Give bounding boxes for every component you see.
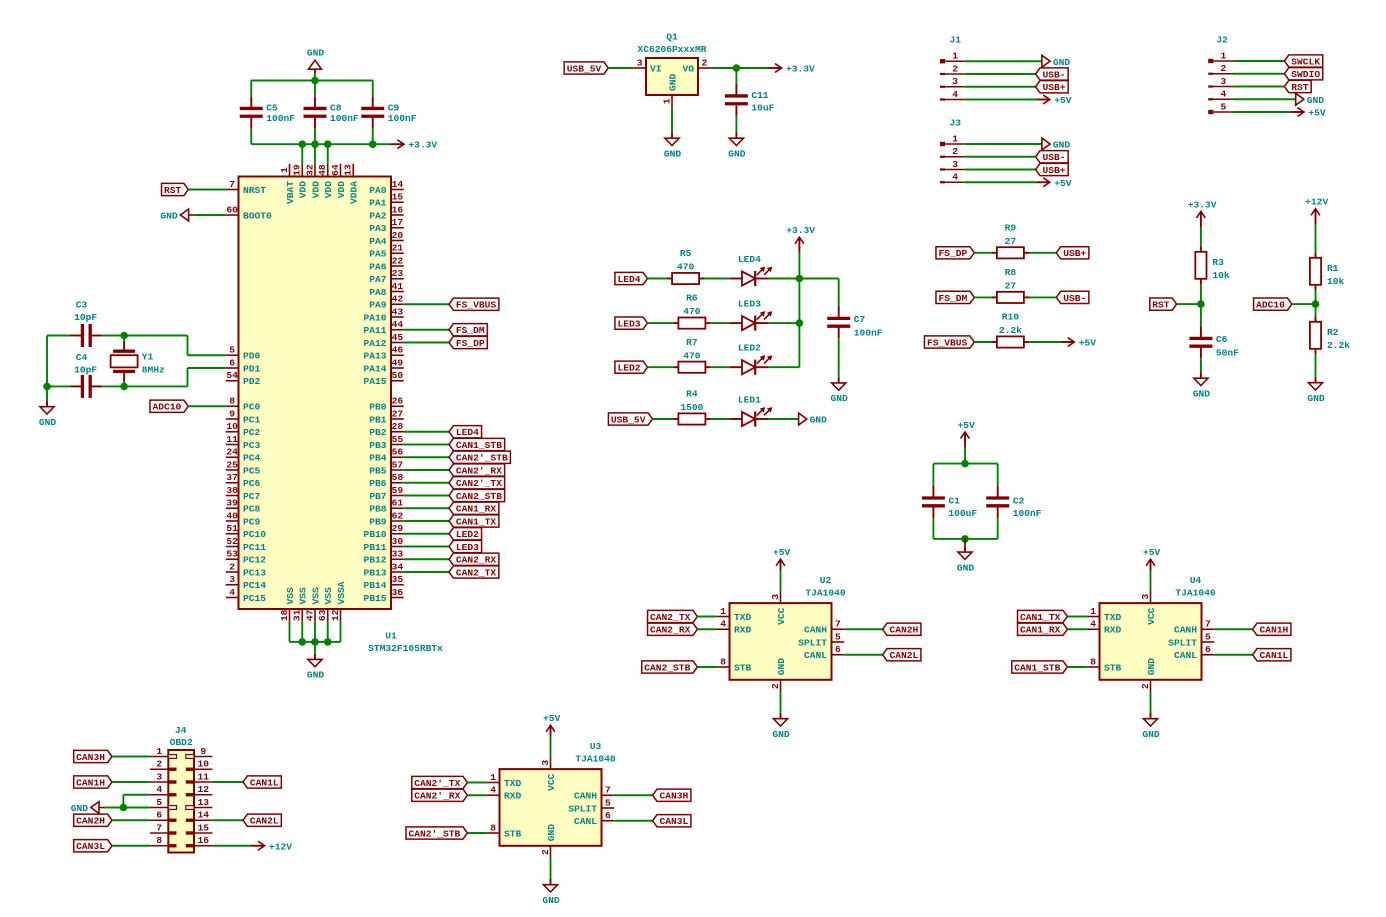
svg-text:PC9: PC9 [243,516,261,527]
net label LED3 [615,317,648,330]
ground C6 [1193,373,1211,400]
svg-text:10: 10 [226,421,238,432]
net label CAN1_STB [1012,661,1068,674]
U4 pin 3 VCC [1140,590,1151,603]
wire [1233,98,1296,100]
wire [404,469,449,471]
svg-text:37: 37 [226,472,238,483]
wire [1177,303,1201,305]
svg-text:STB: STB [1104,662,1122,673]
svg-text:CANL: CANL [1174,650,1197,661]
junction Y1 top [120,332,128,340]
wire C9 bottom [372,128,374,144]
wire top rail of cap bank [251,80,373,82]
net label CAN2'_RX [412,789,468,802]
resistor R5 [667,248,704,284]
svg-text:CAN1H: CAN1H [1260,625,1289,636]
wire U3 GND down [550,859,552,879]
U1 pin 62 PB9 [369,510,404,527]
U1 pin 13 VDDA [343,164,360,204]
power +12V at R1 [1305,197,1328,225]
U1 pin 8 PC0 [226,396,261,413]
U1 pin 38 PC7 [226,485,261,502]
svg-text:GND: GND [1142,729,1160,740]
svg-text:26: 26 [392,396,404,407]
svg-text:RXD: RXD [1104,625,1122,636]
svg-text:PA7: PA7 [369,274,387,285]
svg-text:35: 35 [392,574,404,585]
svg-text:R3: R3 [1212,257,1224,268]
ground C1/C2 [957,546,975,573]
J3 pin 1 [940,133,965,146]
svg-text:LED2: LED2 [738,343,761,354]
net label USB+ at J3 [1036,163,1069,176]
net label CAN2_TX [449,566,499,579]
net label CAN2_RX [648,623,698,636]
J2 pin 2 [1208,63,1233,75]
wire [467,832,486,834]
svg-text:27: 27 [1005,236,1017,247]
net label CAN1_RX [1018,623,1068,636]
svg-text:FS_VBUS: FS_VBUS [456,300,497,311]
svg-text:28: 28 [392,421,404,432]
svg-text:10uF: 10uF [751,103,774,114]
U1 pin 51 PC10 [226,523,267,540]
wire U2 CANH [844,628,882,630]
wire [404,456,449,458]
J4 pin 7 [150,822,177,834]
U1 pin 12 VSSA [330,581,347,622]
svg-text:30: 30 [392,536,404,547]
U1 pin 15 PA1 [369,192,404,209]
ground Q1 [664,133,682,160]
junction rail / VDD pin 19 [298,140,306,148]
svg-text:27: 27 [392,408,404,419]
svg-text:GND: GND [772,729,790,740]
wire [188,189,225,191]
junction LED4 / +3.3V rail [796,275,804,283]
svg-text:20: 20 [392,230,404,241]
wire [1233,111,1290,113]
svg-text:100nF: 100nF [266,113,295,124]
power +3.3V at cap rail [390,140,437,151]
wire [404,571,449,573]
svg-text:GND: GND [831,393,849,404]
svg-text:470: 470 [683,350,701,361]
svg-text:7: 7 [1205,619,1211,630]
wire +5V to U3 VCC [550,736,552,756]
svg-text:PD0: PD0 [243,351,261,362]
capacitor C3 [70,324,102,347]
svg-text:11: 11 [197,771,209,782]
svg-text:10: 10 [197,759,209,770]
svg-text:1: 1 [279,167,290,173]
wire [404,495,449,497]
capacitor C6 [1189,326,1239,358]
resistor R9 [992,222,1029,258]
svg-text:24: 24 [226,447,238,458]
svg-text:SPLIT: SPLIT [1168,637,1197,648]
net label CAN2_RX [449,553,499,566]
svg-text:J1: J1 [950,35,962,46]
svg-text:LED2: LED2 [617,363,640,374]
wire [974,341,992,343]
U1 pin 29 PB10 [363,523,403,540]
svg-text:57: 57 [392,459,404,470]
svg-text:10pF: 10pF [74,312,97,323]
U1 pin 24 PC4 [226,447,261,464]
svg-text:6: 6 [1205,644,1211,655]
svg-text:2: 2 [1221,63,1227,74]
wire C2 top [997,464,999,486]
resistor R3 [1195,247,1230,284]
svg-text:33: 33 [392,549,404,560]
wire [697,616,716,618]
svg-text:8: 8 [490,822,496,833]
svg-text:60: 60 [226,204,238,215]
svg-text:PB5: PB5 [369,465,387,476]
wire [768,322,799,324]
svg-text:4: 4 [490,785,496,796]
net label CAN1L [1253,649,1291,662]
svg-text:PB4: PB4 [369,453,387,464]
svg-text:4: 4 [1221,89,1227,100]
svg-text:C6: C6 [1216,334,1228,345]
svg-text:2: 2 [952,63,958,74]
svg-text:CAN2_TX: CAN2_TX [456,567,497,578]
svg-text:VSS: VSS [310,587,321,605]
svg-text:4: 4 [952,172,958,183]
J4 pin 11 [186,771,213,783]
wire VSS down [327,622,329,642]
svg-text:16: 16 [197,835,209,846]
svg-text:CAN1H: CAN1H [76,777,105,788]
net label USB_5V at Q1 [564,62,608,75]
capacitor C4 [70,375,102,398]
svg-text:3: 3 [637,57,643,68]
svg-text:2.2k: 2.2k [1327,340,1350,351]
crystal Y1 [111,341,165,382]
svg-text:15: 15 [392,192,404,203]
U4 pin 4 RXD [1087,619,1122,636]
wire VSS bus [290,641,341,643]
resistor R8 [992,267,1029,303]
svg-text:PA3: PA3 [369,223,387,234]
svg-text:LED3: LED3 [456,542,479,553]
wire Y1 top lead [123,336,125,341]
svg-text:FS_DM: FS_DM [938,293,967,304]
svg-text:SPLIT: SPLIT [568,803,597,814]
junction RST node [1197,300,1205,308]
wire VSS down [301,622,303,642]
svg-text:100nF: 100nF [330,113,359,124]
svg-text:+3.3V: +3.3V [786,225,815,236]
svg-text:6: 6 [229,357,235,368]
svg-text:4: 4 [156,784,162,795]
net label SWCLK [1284,55,1322,68]
U4 pin 1 TXD [1087,606,1122,623]
J3 pin 4 [940,172,965,184]
svg-text:VSS: VSS [285,587,296,605]
svg-text:XC6206PxxxMR: XC6206PxxxMR [637,44,706,55]
svg-text:56: 56 [392,447,404,458]
svg-text:C11: C11 [751,90,769,101]
svg-text:PA8: PA8 [369,287,387,298]
svg-text:46: 46 [392,345,404,356]
svg-text:C3: C3 [76,299,88,310]
svg-text:USB-: USB- [1043,69,1066,80]
svg-text:21: 21 [392,243,404,254]
U1 pin 52 PC11 [226,536,267,553]
U1 pin 58 PB6 [369,472,404,489]
wire C8 top [314,81,316,97]
svg-text:VDD: VDD [323,181,334,199]
svg-text:8: 8 [720,656,726,667]
svg-text:50nF: 50nF [1216,347,1239,358]
svg-text:PA6: PA6 [369,261,387,272]
net label RST at NRST [162,183,189,196]
J4 pin 8 [150,835,177,847]
J4 pin 16 [186,835,213,847]
svg-text:3: 3 [952,159,958,170]
wire [974,296,992,298]
svg-text:VO: VO [682,63,694,74]
U3 pin 4 RXD [487,785,522,802]
LED LED1 [729,395,772,427]
svg-text:100nF: 100nF [1013,508,1042,519]
net label FS_DM [449,324,487,337]
U1 pin 35 PB14 [363,574,403,591]
wire [965,86,1036,88]
net label CAN3H at J4 [74,750,112,763]
wire [704,278,729,280]
svg-text:14: 14 [197,810,209,821]
wire U4 GND down [1150,693,1152,713]
svg-text:PC6: PC6 [243,478,261,489]
net label CAN2'_TX [412,776,468,789]
svg-text:+3.3V: +3.3V [408,140,437,151]
U3 pin 3 VCC [540,756,551,769]
svg-text:2: 2 [1140,683,1151,689]
U1 pin 26 PB0 [369,396,404,413]
U1 pin 33 PB12 [363,549,403,566]
wire to R1 [1315,224,1317,252]
svg-text:2: 2 [702,57,708,68]
J3 pin 2 [940,146,965,158]
J4 pin 9 [186,746,213,758]
wire to C4 [47,385,70,387]
svg-text:STB: STB [734,662,752,673]
Q1 pin 2 VO [698,57,711,68]
svg-text:1: 1 [661,98,672,104]
svg-text:14: 14 [392,179,404,190]
svg-text:61: 61 [392,498,404,509]
svg-text:C7: C7 [854,314,866,325]
wire U2 GND down [780,693,782,713]
svg-text:PC15: PC15 [243,593,266,604]
net label CAN2L [883,649,921,662]
svg-text:CANL: CANL [804,650,827,661]
J4 pin 3 [150,771,177,783]
U3 pin 5 SPLIT [568,797,614,814]
svg-text:USB_5V: USB_5V [611,414,646,425]
svg-text:CAN2'_STB: CAN2'_STB [409,828,461,839]
net label CAN1L at J4 [243,776,281,789]
svg-text:R4: R4 [686,389,698,400]
wire +5V to U2 VCC [780,570,782,590]
power +5V at U3 [543,713,561,736]
junction Y1 bottom [120,383,128,391]
U1 pin 32 VDD [304,164,321,199]
svg-text:C1: C1 [948,495,960,506]
op-amp U3 body (TJA1040) [500,769,602,846]
ground above C8 bank [307,47,325,80]
wire [404,520,449,522]
svg-text:STM32F105RBTx: STM32F105RBTx [368,643,443,654]
U1 pin 17 PA3 [369,217,404,234]
svg-text:5: 5 [229,345,235,356]
U1 pin 23 PA7 [369,268,404,285]
svg-text:50: 50 [392,370,404,381]
svg-text:PA0: PA0 [369,185,387,196]
J2 pin 4 [1208,89,1233,101]
svg-text:U2: U2 [820,575,832,586]
capacitor C5 [240,96,296,128]
svg-text:45: 45 [392,332,404,343]
capacitor C11 [725,84,775,116]
wire [404,342,449,344]
svg-text:CAN2_STB: CAN2_STB [644,662,690,673]
svg-text:43: 43 [392,306,404,317]
svg-text:17: 17 [392,217,404,228]
LED LED2 [729,343,772,375]
junction at GND drop [43,383,51,391]
U1 pin 22 PA6 [369,255,404,272]
svg-text:STB: STB [504,828,522,839]
svg-text:GND: GND [1146,658,1157,676]
wire [404,329,449,331]
wire left vertical of crystal loop [46,336,48,387]
svg-text:+5V: +5V [543,713,561,724]
wire C1/C2 bottom rail [933,538,997,540]
resistor R6 [673,293,710,329]
svg-text:+5V: +5V [1079,338,1097,349]
U1 pin 48 VDD [317,164,334,199]
svg-text:CANH: CANH [574,791,597,802]
wire Y1 bottom lead [123,382,125,387]
svg-text:54: 54 [226,370,238,381]
svg-text:VSSA: VSSA [336,581,347,604]
svg-text:8: 8 [1090,656,1096,667]
J1 pin 1 [940,51,965,64]
net label USB+ at J1 [1036,81,1069,94]
svg-text:TJA1040: TJA1040 [575,753,616,764]
svg-text:PA13: PA13 [363,351,386,362]
svg-text:4: 4 [1090,619,1096,630]
svg-text:3: 3 [770,594,781,600]
svg-text:38: 38 [226,485,238,496]
junction rail / VDD pin 48 [324,140,332,148]
svg-text:PB13: PB13 [363,567,386,578]
wire VSS down [314,622,316,642]
transistor Q1 body (XC6206PxxxMR regulator) [646,58,698,95]
svg-text:+5V: +5V [1054,178,1072,189]
U1 pin 25 PC5 [226,459,261,476]
svg-text:Q1: Q1 [666,31,678,42]
svg-text:PC11: PC11 [243,542,266,553]
wire [711,418,730,420]
svg-text:63: 63 [317,609,328,621]
ground at J3 pin 1 [1042,138,1071,150]
svg-text:1: 1 [1221,50,1227,61]
wire GND to J4 pin 5 [104,807,150,809]
wire C4 to PD1 branch [102,385,187,387]
svg-text:PC0: PC0 [243,402,261,413]
wire [711,322,730,324]
svg-text:PB10: PB10 [363,529,386,540]
svg-text:PB7: PB7 [369,491,387,502]
svg-text:CAN2L: CAN2L [890,650,919,661]
svg-text:1: 1 [156,746,162,757]
U2 pin 2 GND [770,680,781,693]
U1 pin 34 PB13 [363,561,403,578]
svg-text:CAN1_TX: CAN1_TX [456,516,497,527]
svg-text:53: 53 [226,549,238,560]
power +5V at J1 pin 4 [1036,95,1072,106]
U4 pin 6 CANL [1174,644,1214,661]
svg-text:CAN3L: CAN3L [76,841,105,852]
capacitor C1 [922,486,978,519]
svg-text:PC5: PC5 [243,465,261,476]
svg-text:15: 15 [197,822,209,833]
wire [467,782,486,784]
U1 pin 28 PB2 [369,421,404,438]
svg-text:CAN2_RX: CAN2_RX [456,555,497,566]
net label FS_VBUS at R10 [924,336,974,349]
resistor R4 [673,389,710,425]
svg-text:LED3: LED3 [738,299,761,310]
svg-text:LED1: LED1 [738,395,761,406]
U1 pin 10 PC2 [226,421,261,438]
wire [404,546,449,548]
svg-text:GND: GND [1307,393,1325,404]
resistor R7 [673,337,710,373]
U1 pin 19 VDD [292,164,309,199]
svg-text:R5: R5 [680,248,692,259]
svg-text:PB2: PB2 [369,427,387,438]
svg-text:RST: RST [1291,82,1309,93]
net label CAN2'_STB [449,451,510,464]
svg-text:PD2: PD2 [243,376,261,387]
wire to PD0 pin [188,354,226,356]
U2 pin 6 CANL [804,644,844,661]
wire to VDD pin 48 [327,144,329,164]
svg-text:USB-: USB- [1043,152,1066,163]
svg-text:BOOT0: BOOT0 [243,210,272,221]
svg-text:C8: C8 [330,102,342,113]
svg-text:R6: R6 [686,293,698,304]
U1 pin 16 PA2 [369,204,404,221]
svg-text:32: 32 [304,164,315,176]
svg-text:R2: R2 [1327,327,1339,338]
svg-text:PB11: PB11 [363,542,386,553]
U1 pin 53 PC12 [226,549,267,566]
wire [1233,86,1284,88]
wire [711,366,730,368]
svg-text:CAN1L: CAN1L [1260,650,1289,661]
svg-text:6: 6 [835,644,841,655]
svg-text:PC10: PC10 [243,529,266,540]
